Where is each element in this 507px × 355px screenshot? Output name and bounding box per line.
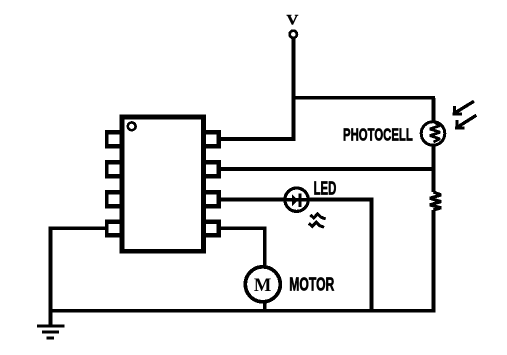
IC U1 body (8-pin DIP) <box>122 117 204 251</box>
label V <box>287 13 299 29</box>
label MOTOR <box>289 274 334 295</box>
photocell PC1 body <box>421 122 445 146</box>
wire: pin 5 to V line (row 1) <box>221 137 295 141</box>
terminal V <box>290 31 297 38</box>
wire: V supply vertical down to node A <box>291 37 295 141</box>
label M inside motor <box>254 276 271 296</box>
wire: node to resistor top <box>431 169 435 192</box>
wire: pin 7 through LED (row 3) <box>221 198 373 202</box>
svg-text:M: M <box>254 276 271 296</box>
ground symbol <box>37 326 65 338</box>
wire: node A branch to photocell top <box>292 96 436 100</box>
LED light squiggle 2 <box>309 222 324 227</box>
LED D1 body <box>284 188 310 211</box>
label LED <box>314 179 337 199</box>
pin 6 <box>205 160 221 178</box>
wire: photocell top stub <box>431 98 435 123</box>
motor M1 body <box>245 267 280 302</box>
svg-text:V: V <box>287 13 299 29</box>
IC U1 pin-1 indicator dot <box>128 122 136 130</box>
wire: pin 8 to motor (row 4 right) <box>221 227 266 231</box>
wire: LED line down to ground rail <box>370 198 374 313</box>
svg-text:MOTOR: MOTOR <box>289 274 334 295</box>
label PHOTOCELL <box>343 125 413 145</box>
LED light squiggle 1 <box>310 214 325 219</box>
wire: motor top stub <box>263 228 267 270</box>
wire: resistor bottom to ground rail <box>431 210 435 313</box>
pin 2 <box>105 160 121 178</box>
wire: ground vertical drop <box>49 227 53 327</box>
pin 4 (left bottom) <box>105 219 121 237</box>
svg-text:LED: LED <box>314 179 337 199</box>
resistor R1 <box>430 192 441 210</box>
wire: pin 6 to photocell/resistor node (row 2) <box>221 167 435 171</box>
pin 1 (left top) <box>105 130 121 148</box>
svg-text:PHOTOCELL: PHOTOCELL <box>343 125 413 145</box>
pin 8 (right bottom) <box>205 219 221 237</box>
wire: pin 4 to ground drop (row 4 left) <box>52 227 105 231</box>
pin 7 <box>205 190 221 208</box>
pin 3 <box>105 190 121 208</box>
pin 5 (right top) <box>205 130 221 148</box>
light arrow 1 into photocell <box>453 101 474 115</box>
wire: photocell bottom to row-2 node <box>431 144 435 171</box>
wire: motor bottom stub <box>263 298 267 313</box>
wire: ground rail (bottom) <box>51 309 436 313</box>
light arrow 2 into photocell <box>455 115 476 129</box>
